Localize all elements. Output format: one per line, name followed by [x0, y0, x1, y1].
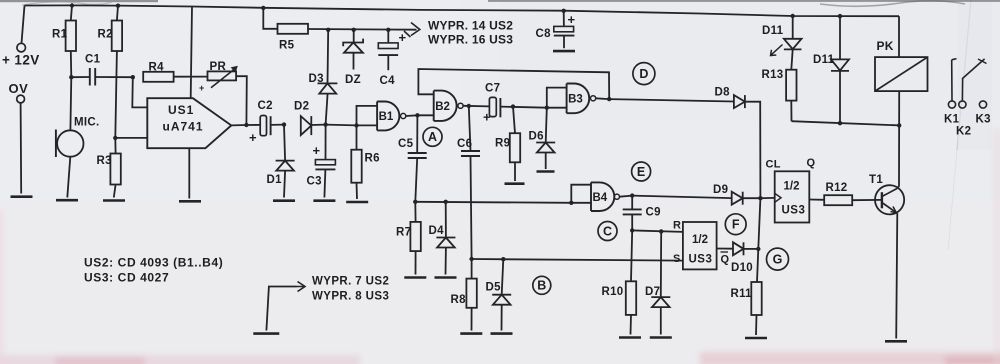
- ground D4 ground: [435, 276, 457, 279]
- diode D2: [294, 101, 311, 136]
- zener diode DZ: [343, 39, 363, 86]
- node C1-R4 junction: [131, 75, 135, 79]
- svg-text:CL: CL: [766, 159, 781, 171]
- node rail-D11led: [791, 14, 795, 18]
- LED D11: [762, 25, 802, 56]
- wire B1 output: [406, 114, 418, 117]
- svg-text:R: R: [673, 220, 681, 232]
- svg-text:D4: D4: [429, 225, 445, 237]
- wire T1 collector up to PK: [897, 91, 899, 188]
- svg-text:WYPR. 14 US2: WYPR. 14 US2: [428, 19, 513, 33]
- svg-text:R9: R9: [495, 138, 510, 150]
- wire D7 upper lead: [660, 231, 662, 297]
- ground D1 ground: [273, 199, 295, 202]
- svg-text:D5: D5: [486, 282, 502, 294]
- svg-text:T1: T1: [869, 174, 883, 186]
- wire B-bus C6/R8/D5 to S input: [472, 259, 683, 261]
- flip-flop U3a 1/2 US3 (RS): [683, 222, 717, 269]
- svg-text:Q: Q: [807, 157, 816, 169]
- wire PR right to op-amp output: [236, 76, 247, 125]
- wire B3 output: [596, 97, 610, 100]
- wire D6 upper lead: [546, 108, 547, 143]
- node D2-D3-C3 junction: [323, 122, 327, 126]
- svg-text:R2: R2: [98, 29, 113, 41]
- svg-text:E: E: [637, 165, 645, 179]
- ground D6 ground: [537, 170, 555, 173]
- node node A-bus/B4-in: [569, 201, 573, 205]
- wire C4 top lead: [387, 30, 389, 43]
- arrow to WYPR 14/16: [404, 23, 420, 38]
- wire D3 upper lead: [327, 30, 330, 84]
- wire D10 to junction: [744, 248, 759, 250]
- node R5 line - C4: [386, 28, 390, 32]
- svg-text:S: S: [673, 253, 681, 265]
- node node R-line/D7: [659, 229, 663, 233]
- svg-text:US3: US3: [689, 254, 713, 266]
- svg-text:+: +: [399, 30, 407, 45]
- capacitor C1: [71, 54, 133, 86]
- wire LED to R13: [791, 49, 792, 69]
- svg-text:F: F: [732, 218, 740, 232]
- diode D9: [713, 184, 743, 205]
- wire D4 lower lead: [445, 248, 447, 275]
- svg-text:R11: R11: [731, 288, 753, 300]
- wire D6 lower lead: [545, 153, 547, 170]
- svg-text:R1: R1: [52, 29, 68, 41]
- capacitor C5: [398, 138, 427, 158]
- svg-text:C3: C3: [307, 176, 322, 188]
- wire B4 output: [620, 196, 633, 197]
- NAND gate B3: [567, 84, 596, 114]
- diode D7: [645, 286, 670, 307]
- node node D11 lower: [838, 121, 842, 125]
- node node A-bus/D4: [444, 200, 448, 204]
- op-amp V- pin to ground: [188, 148, 190, 198]
- node D: [633, 63, 655, 85]
- node R2-R3 junction: [113, 136, 117, 140]
- svg-text:+: +: [483, 110, 491, 125]
- svg-text:US3: CD 4027: US3: CD 4027: [84, 271, 169, 285]
- svg-text:D11: D11: [813, 54, 835, 66]
- svg-text:C5: C5: [398, 138, 414, 150]
- wire D2 to C3/D3 junction: [311, 124, 325, 126]
- node R5 line - D3: [326, 28, 330, 32]
- ground op-amp ground: [179, 200, 201, 203]
- node B: [533, 276, 551, 294]
- svg-text:+: +: [199, 83, 204, 93]
- node node B2 out / C6: [467, 104, 471, 108]
- svg-text:D: D: [639, 67, 648, 81]
- resistor R13: [762, 69, 797, 121]
- wire CL junction down to D10 node: [758, 198, 760, 249]
- svg-text:OV: OV: [9, 81, 29, 96]
- wire B2 lower input: [417, 114, 433, 116]
- ground R11 ground: [745, 337, 767, 340]
- diode D5: [486, 282, 512, 305]
- NAND gate B4: [591, 182, 620, 211]
- wire A-bus C5/R7/D4 to B4 inputs: [415, 185, 591, 203]
- svg-text:D9: D9: [713, 184, 728, 196]
- potentiometer PR: [199, 61, 238, 93]
- capacitor C3 (electrolytic): [307, 143, 336, 188]
- scan edge marks top: [0, 0, 1000, 6]
- relay contact K3: [976, 101, 991, 126]
- node rail-R2: [116, 3, 120, 7]
- svg-text:R6: R6: [365, 153, 380, 165]
- svg-text:D1: D1: [267, 174, 283, 186]
- NAND gate B1: [377, 102, 406, 131]
- ground T1 emitter ground: [885, 340, 907, 343]
- wire R4 right to PR: [174, 76, 208, 78]
- diode D8: [715, 87, 745, 109]
- wire rail to D11: [839, 16, 841, 59]
- ground C8 ground: [553, 50, 575, 53]
- capacitor C2 (electrolytic): [246, 100, 284, 145]
- svg-text:R8: R8: [451, 294, 467, 306]
- ground WYPR ground: [253, 332, 279, 335]
- svg-text:US3: US3: [782, 205, 806, 217]
- node node B-bus/D5: [501, 257, 505, 261]
- ground R8 ground: [460, 332, 482, 335]
- wire C8 top lead: [563, 11, 565, 27]
- node node C9 out / R-line: [630, 228, 634, 232]
- wire R13 line to collector: [792, 121, 900, 125]
- svg-text:K3: K3: [976, 114, 991, 126]
- svg-text:C8: C8: [536, 28, 552, 40]
- diode D1: [267, 161, 295, 186]
- wire B4 out to D9: [632, 196, 732, 199]
- svg-text:B2: B2: [435, 101, 450, 113]
- svg-text:D3: D3: [309, 73, 324, 85]
- transistor T1: [869, 174, 904, 214]
- svg-text:C1: C1: [85, 54, 101, 66]
- wire T1 emitter to ground: [896, 213, 897, 338]
- svg-text:DZ: DZ: [345, 74, 361, 86]
- node C2-D1 junction: [282, 122, 286, 126]
- ground R6 ground: [346, 201, 368, 204]
- node node collector/R13 line: [897, 123, 901, 127]
- node node B3 out: [607, 97, 611, 101]
- 0V terminal: [9, 81, 29, 194]
- svg-text:+: +: [568, 12, 576, 27]
- node node D10/R11/CL drop: [756, 247, 760, 251]
- pin label Q-bar: [721, 252, 730, 266]
- svg-text:R10: R10: [602, 286, 624, 298]
- node R5 line - DZ: [352, 28, 356, 32]
- svg-text:D7: D7: [645, 286, 660, 298]
- relay contact K1: [944, 59, 960, 126]
- resistor R3: [97, 138, 121, 198]
- wire D5 upper lead: [502, 259, 504, 295]
- wire C3 to ground: [324, 169, 325, 197]
- wire op-amp output: [231, 124, 246, 126]
- wire rail to R5: [263, 8, 277, 29]
- diode D10: [731, 242, 753, 274]
- wire B2 output: [463, 105, 489, 108]
- ground C3 ground: [313, 199, 335, 202]
- ground D5 ground: [491, 332, 513, 335]
- svg-text:1/2: 1/2: [692, 234, 708, 246]
- wire C9 lower lead: [631, 214, 633, 230]
- node F: [725, 214, 746, 235]
- wire junction to B1: [326, 124, 357, 127]
- wire R12 to T1 base: [852, 199, 882, 201]
- wire C5 to A-bus: [415, 158, 417, 202]
- wire C9 upper lead: [631, 196, 633, 210]
- node node B1 out / C5: [415, 113, 419, 117]
- ground R3 ground: [103, 199, 125, 202]
- node node B4 out / E: [630, 193, 634, 197]
- svg-text:D6: D6: [529, 131, 544, 143]
- svg-text:PR: PR: [210, 61, 227, 73]
- wire D1 to ground: [284, 171, 285, 198]
- node rail-C8: [562, 9, 566, 13]
- node node CL junction: [758, 196, 762, 200]
- wire R3 node to op-amp input: [115, 137, 147, 139]
- wire B3 input bracket: [547, 88, 567, 108]
- wire +12V top rail: [25, 5, 900, 16]
- svg-text:C2: C2: [258, 100, 273, 112]
- resistor R6: [351, 125, 380, 199]
- svg-text:K2: K2: [956, 126, 971, 138]
- wire C6 upper lead: [469, 106, 471, 151]
- svg-text:C6: C6: [457, 138, 472, 150]
- wire R-line to FF1 R input: [632, 230, 683, 232]
- svg-text:WYPR. 7 US2: WYPR. 7 US2: [312, 276, 389, 288]
- svg-text:D10: D10: [731, 262, 753, 274]
- NAND gate B2: [434, 91, 463, 121]
- microphone MIC: [56, 77, 100, 197]
- diode D6: [529, 131, 556, 153]
- capacitor C7 (electrolytic): [483, 83, 547, 125]
- wire FF1 Qbar to D10: [717, 248, 733, 250]
- node R1-C1-MIC junction: [69, 75, 73, 79]
- svg-text:B1: B1: [379, 111, 394, 123]
- svg-text:Q: Q: [721, 254, 730, 266]
- resistor R8: [451, 259, 477, 331]
- wire B3 out to D8: [609, 99, 734, 101]
- svg-text:B3: B3: [568, 94, 583, 106]
- resistor R5: [278, 24, 309, 52]
- flip-flop U3b 1/2 US3 (clocked): [775, 171, 810, 222]
- node node C7 out / R9: [511, 104, 515, 108]
- node B1 input - R6 junction: [354, 123, 358, 127]
- resistor R4: [143, 62, 173, 82]
- paper crease top right: [948, 0, 992, 250]
- wire rail to LED D11: [792, 16, 794, 39]
- svg-text:C7: C7: [485, 83, 500, 95]
- +12V supply terminal: [2, 6, 40, 68]
- capacitor C8 (electrolytic): [536, 12, 576, 48]
- svg-text:R5: R5: [279, 40, 295, 52]
- wire D11 down to R13 line: [839, 71, 841, 123]
- svg-text:+: +: [313, 143, 321, 158]
- svg-text:US2: CD 4093 (B1..B4): US2: CD 4093 (B1..B4): [84, 256, 223, 270]
- resistor R1: [52, 6, 76, 78]
- wire rail to PK top: [898, 16, 900, 57]
- svg-text:R4: R4: [149, 62, 165, 74]
- svg-text:uA741: uA741: [163, 120, 204, 134]
- node G: [767, 248, 789, 270]
- wire R11 upper lead: [757, 249, 758, 282]
- svg-text:R12: R12: [826, 182, 848, 194]
- wire D7 lower lead: [660, 307, 662, 334]
- svg-text:1/2: 1/2: [784, 181, 800, 193]
- wire rail to op-amp V+ pin: [191, 7, 192, 98]
- arrow to WYPR 7/8: [297, 282, 306, 292]
- svg-text:R7: R7: [396, 227, 411, 239]
- svg-text:K1: K1: [944, 114, 960, 126]
- wire C6 to B-bus: [471, 156, 472, 259]
- wire D9 to CL junction: [743, 197, 761, 199]
- node op-amp output node: [244, 123, 248, 127]
- wire C3 drop: [325, 125, 327, 160]
- svg-text:R3: R3: [97, 155, 112, 167]
- resistor R9: [495, 107, 520, 181]
- wire R5 output line: [308, 28, 417, 31]
- svg-text:MIC.: MIC.: [74, 117, 99, 129]
- resistor R11: [731, 282, 762, 335]
- node rail-R1: [70, 3, 74, 7]
- pink scan stains: [0, 130, 1000, 364]
- svg-text:A: A: [428, 130, 437, 144]
- svg-text:WYPR. 16 US3: WYPR. 16 US3: [428, 33, 513, 47]
- resistor R10: [602, 230, 637, 334]
- ground D7 ground: [650, 336, 672, 339]
- wire FF2 Q to R12: [809, 199, 824, 201]
- svg-text:+: +: [249, 130, 257, 145]
- svg-text:C: C: [603, 224, 612, 238]
- svg-text:C4: C4: [380, 75, 396, 87]
- ground MIC ground: [56, 199, 78, 202]
- diode D3: [309, 73, 338, 94]
- node node B-bus/R8: [469, 257, 473, 261]
- resistor R12: [824, 182, 852, 205]
- relay PK coil: [875, 39, 928, 91]
- ground 0V ground: [11, 195, 33, 198]
- wire C1/R4 node to op-amp inv input: [132, 77, 147, 107]
- wire D3 lower lead: [326, 94, 328, 125]
- wire D1 drop: [284, 125, 285, 161]
- svg-text:WYPR. 8 US3: WYPR. 8 US3: [312, 291, 389, 303]
- ground R7 ground: [404, 276, 426, 279]
- ground R10 ground: [619, 336, 641, 339]
- wire D4 upper lead: [445, 202, 447, 238]
- svg-text:C9: C9: [646, 207, 661, 219]
- svg-text:PK: PK: [877, 39, 894, 53]
- resistor R2: [98, 6, 123, 138]
- node E: [632, 162, 651, 181]
- svg-text:US1: US1: [168, 103, 194, 117]
- wire CL to FF2 clock input: [760, 197, 774, 199]
- svg-text:D2: D2: [294, 101, 309, 113]
- wire feedback B3 output to B2 input: [418, 69, 609, 99]
- node A: [423, 127, 442, 146]
- op-amp US1 uA741: [147, 98, 231, 148]
- capacitor C4 (electrolytic): [378, 30, 406, 87]
- diode D4: [429, 225, 456, 248]
- svg-text:B4: B4: [593, 192, 608, 204]
- ground R9 ground: [505, 182, 525, 185]
- svg-text:D11: D11: [762, 25, 784, 37]
- svg-text:G: G: [773, 252, 783, 266]
- wire D5 lower lead: [501, 305, 503, 331]
- node node A-bus/R7: [413, 200, 417, 204]
- wire ground to WYPR arrow: [266, 287, 296, 331]
- wire D8 to CL junction: [745, 102, 761, 198]
- diode D11 (flyback): [813, 54, 849, 71]
- svg-text:+ 12V: + 12V: [2, 53, 40, 68]
- node rail-D11: [838, 14, 842, 18]
- wire B1 input bracket: [357, 106, 378, 126]
- capacitor C9: [623, 207, 661, 219]
- node rail-R5: [261, 6, 265, 10]
- wire C5 top lead: [416, 115, 418, 153]
- wire DZ top lead: [353, 30, 355, 43]
- node C: [598, 222, 617, 241]
- node node D6 / B3 input: [545, 106, 549, 110]
- capacitor C6: [457, 138, 480, 156]
- relay contact K2 (common, blade): [956, 59, 987, 138]
- resistor R7: [396, 202, 421, 275]
- svg-text:B: B: [537, 279, 546, 293]
- svg-text:D8: D8: [715, 87, 731, 99]
- svg-text:R13: R13: [762, 69, 784, 81]
